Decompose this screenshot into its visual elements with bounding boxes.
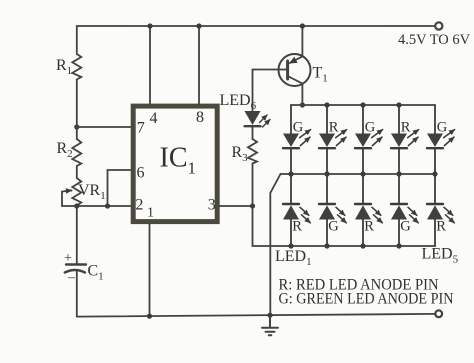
svg-text:T1: T1 [313,65,328,85]
svg-text:G: G [437,119,448,135]
wire: T1 base to LED6 [253,70,288,112]
capacitor C1 [66,263,86,265]
svg-text:1: 1 [147,206,154,221]
svg-text:6: 6 [137,165,145,182]
svg-text:LED5: LED5 [422,246,459,266]
node: R1/R2/pin7 junction [74,124,79,129]
LED column 5 bottom (R) [427,171,454,246]
svg-text:7: 7 [137,120,145,137]
svg-text:+: + [64,251,72,266]
svg-text:G: G [293,119,304,135]
node: pin6 loop junction [105,203,110,208]
wire: middle rail to ground run [270,174,280,315]
node: VR1 bottom junction [74,203,79,208]
svg-text:3: 3 [208,196,216,213]
wire: matrix middle rail [281,173,436,175]
LED column 4 bottom (G) [391,171,418,248]
wire: VR1 wiper arm [62,191,72,207]
svg-text:R2: R2 [57,140,73,160]
wire: matrix top rail [291,104,435,106]
svg-text:8: 8 [196,109,204,126]
node: T1 supply junction [300,23,305,28]
transistor Q1 [279,54,311,86]
LED column 1 top (G) [283,105,311,174]
resistor R2 [72,139,81,166]
svg-text:G: G [400,218,411,234]
IC U1 box [133,106,217,222]
wire: pin 1 to ground [149,224,151,316]
wire: bottom ground rail [77,314,435,317]
wire: node to IC pin 7 [77,126,133,128]
svg-text:G: G [328,218,339,234]
wire: LED6 to R3 [252,126,254,139]
node: pin3/R3/bottom-rail junction [250,203,255,208]
wire: T1 collector to matrix top rail [301,84,303,105]
wire: top supply rail [77,25,435,27]
svg-text:G: G [365,119,376,135]
svg-text:G: GREEN LED ANODE PIN: G: GREEN LED ANODE PIN [279,291,454,308]
svg-text:R: R [401,119,411,135]
LED column 5 top (G) [427,105,455,174]
svg-text:LED6: LED6 [220,92,257,112]
resistor R1 [72,54,81,80]
wire: VR1 junction down to C1 [76,206,78,265]
LED D6 [245,111,261,125]
node: pin4 supply junction [147,23,152,28]
svg-text:IC1: IC1 [160,143,197,178]
wire: R3 to pin3 node [252,164,254,207]
potentiometer VR1 [72,178,81,206]
svg-text:VR1: VR1 [78,182,106,202]
LED column 1 bottom (R) [283,171,310,248]
wire: pin 4 to supply [149,26,151,104]
LED column 3 bottom (R) [355,171,382,248]
ground symbol [262,315,278,335]
wire: pin 3 output [220,205,253,207]
svg-text:R3: R3 [232,144,249,164]
wire: pin 8 to supply [198,26,200,104]
LED column 3 top (G) [355,102,383,174]
wire: pin 2 horizontal [62,205,133,207]
wire: R1 to node [76,80,78,140]
svg-text:4: 4 [150,110,158,127]
resistor R3 [248,139,257,164]
svg-text:R: R [364,218,374,234]
wire: left vertical top (supply to R1) [76,26,78,54]
svg-text:R: R [329,119,339,135]
svg-text:C1: C1 [88,263,104,283]
wire: R2 to VR1 [76,166,78,178]
wire: T1 emitter to supply [301,26,303,56]
svg-text:R1: R1 [56,57,72,77]
svg-text:R: R [436,218,446,234]
LED matrix columns [283,102,455,248]
LED column 2 bottom (G) [319,171,346,248]
node: collector/top-rail junction [300,102,305,107]
svg-text:2: 2 [135,196,143,213]
node: ground rail junction [267,313,272,318]
node: pin1 ground junction [147,314,152,319]
svg-text:4.5V TO 6V: 4.5V TO 6V [398,32,471,48]
LED column 2 top (R) [319,102,347,174]
terminal: positive supply [435,22,442,29]
node: pin8 supply junction [196,23,201,28]
svg-text:R: R [292,218,302,234]
svg-text:–: – [67,270,76,285]
terminal: negative supply [435,310,442,317]
wire: C1 to bottom rail [76,272,78,317]
wire: pin 6 loop [108,170,134,206]
svg-text:LED1: LED1 [275,248,312,268]
wire: matrix bottom rail [253,206,436,246]
LED column 4 top (R) [391,102,419,174]
